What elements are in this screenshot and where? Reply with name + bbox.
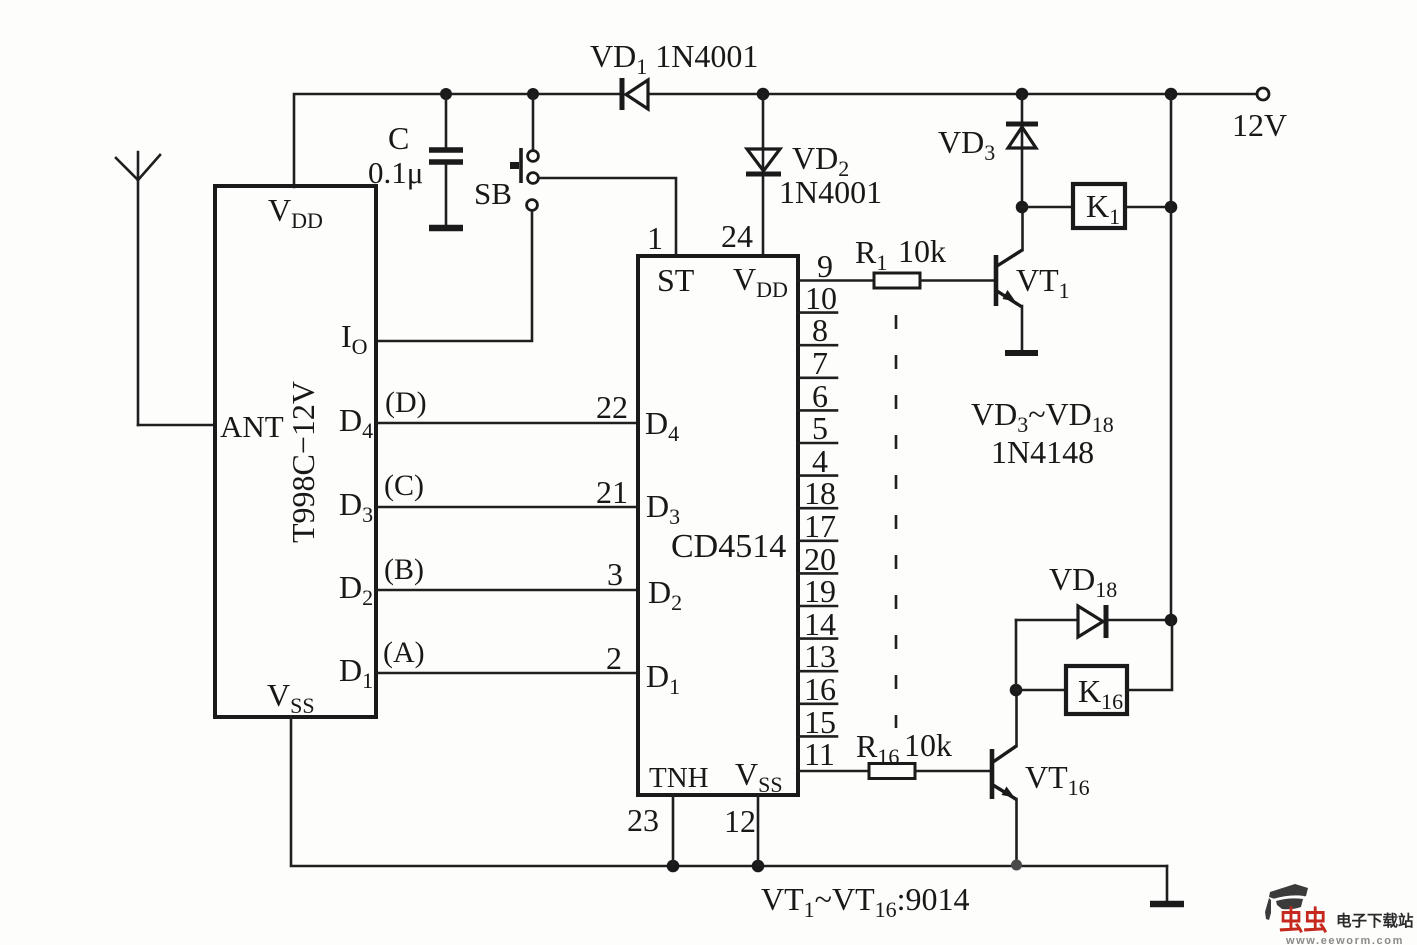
pin 19 stub (798, 605, 837, 608)
svg-text:17: 17 (804, 508, 836, 544)
wire pin 23 TNH (672, 795, 675, 866)
svg-text:9: 9 (817, 248, 833, 284)
svg-text:1N4001: 1N4001 (779, 174, 882, 210)
node junction VD2 on rail (757, 88, 770, 101)
svg-text:T998C−12V: T998C−12V (285, 381, 321, 543)
wire VDD rail top: from ANT VDD up and across to 12V terminal (294, 94, 620, 187)
wire K1 to right rail (1125, 206, 1171, 209)
node pin23 junction (667, 860, 680, 873)
wire SB to ST pin1 (539, 178, 676, 254)
wire right rail (1170, 94, 1173, 620)
pin 13 stub (798, 670, 837, 673)
wire D4 bus (377, 422, 638, 425)
node junction SB on rail (527, 88, 539, 100)
capacitor C 0.1u (429, 94, 463, 228)
IC U1 T998C-12V receiver box (215, 186, 376, 717)
svg-text:24: 24 (721, 218, 753, 254)
svg-text:3: 3 (607, 556, 623, 592)
logo graduation cap (1269, 884, 1308, 901)
diode VD18 (1016, 605, 1171, 638)
svg-text:ANT: ANT (220, 409, 284, 444)
svg-text:www.eeworm.com: www.eeworm.com (1285, 935, 1404, 945)
wire pin 9 to R1 (798, 279, 874, 282)
wire top rail right of VD1 (648, 93, 1257, 96)
wire VSS down from T998C (291, 717, 1167, 866)
wire D1 bus (377, 672, 638, 675)
svg-text:16: 16 (804, 671, 836, 707)
wire SB lower contact to IO (377, 211, 532, 341)
ground main (1150, 866, 1184, 904)
diode VD2 1N4001 (746, 94, 781, 254)
svg-text:10k: 10k (898, 233, 946, 269)
node VD18 right rail junction (1165, 614, 1178, 627)
diode VD3 (1006, 94, 1038, 207)
switch SB pushbutton (510, 94, 538, 210)
node junction VD3 on rail (1016, 88, 1029, 101)
svg-text:19: 19 (804, 573, 836, 609)
svg-text:(A): (A) (383, 636, 425, 669)
wire R16 to VT16 base (915, 770, 990, 773)
wire pin 12 VSS (757, 795, 760, 866)
resistor R1 10k (874, 273, 920, 288)
svg-text:12V: 12V (1232, 107, 1287, 143)
node 12V terminal (1257, 88, 1269, 100)
wire junction up to VD18 (1015, 620, 1018, 690)
node junction right rail on top rail (1165, 88, 1178, 101)
relay K1 (1073, 184, 1125, 228)
pin 17 stub (798, 539, 837, 542)
pin 18 stub (798, 507, 837, 510)
node VT1 collector junction (1016, 201, 1029, 214)
pin 16 stub (798, 702, 837, 705)
ground VT1 emitter (1005, 350, 1038, 356)
svg-text:(B): (B) (384, 553, 424, 586)
wire pin 11 to R16 (798, 770, 869, 773)
transistor VT16 9014 (992, 690, 1017, 866)
wire R1 to VT1 base (920, 279, 994, 282)
logo text 虫虫 red (1279, 906, 1328, 936)
node VT16 emitter junction (1011, 860, 1022, 871)
pin 15 stub (798, 735, 837, 738)
IC U2 CD4514 box (638, 256, 798, 795)
svg-text:ST: ST (657, 262, 695, 298)
node pin12 junction (752, 860, 765, 873)
svg-text:13: 13 (804, 638, 836, 674)
node VT16 collector junction (1010, 684, 1023, 697)
wire D2 bus (377, 589, 638, 592)
svg-text:1: 1 (647, 220, 663, 256)
svg-text:(D): (D) (385, 386, 427, 419)
svg-text:21: 21 (596, 474, 628, 510)
svg-text:TNH: TNH (649, 762, 709, 794)
pin 20 stub (798, 572, 837, 575)
svg-text:12: 12 (724, 803, 756, 839)
wire K16 to right rail (1127, 620, 1172, 690)
svg-text:VD1 1N4001: VD1 1N4001 (590, 38, 758, 79)
pin 8 stub (798, 344, 837, 347)
wire junction to K1 (1022, 206, 1073, 209)
svg-text:23: 23 (627, 802, 659, 838)
svg-text:4: 4 (812, 443, 828, 479)
transistor VT1 9014 (996, 207, 1023, 350)
svg-text:5: 5 (812, 410, 828, 446)
pin 7 stub (798, 376, 837, 379)
wire antenna to ANT pin (138, 424, 215, 427)
svg-text:VT1~VT16:9014: VT1~VT16:9014 (761, 881, 970, 922)
svg-text:电子下载站: 电子下载站 (1336, 911, 1414, 930)
pin 14 stub (798, 637, 837, 640)
wire D3 bus (377, 506, 638, 509)
svg-text:18: 18 (804, 475, 836, 511)
svg-text:2: 2 (606, 640, 622, 676)
svg-text:10k: 10k (904, 727, 952, 763)
logo watermark eeworm (1265, 884, 1414, 945)
svg-text:6: 6 (812, 378, 828, 414)
diode VD1 1N4001 (622, 78, 648, 110)
svg-text:7: 7 (812, 345, 828, 381)
svg-text:虫虫: 虫虫 (1279, 906, 1328, 936)
pin 4 stub (798, 474, 837, 477)
wire junction to K16 (1016, 689, 1066, 692)
svg-text:(C): (C) (384, 469, 424, 502)
svg-text:1N4148: 1N4148 (991, 434, 1094, 470)
pin 10 stub (798, 311, 837, 314)
wire dashed continuation between channels (895, 315, 898, 728)
svg-text:8: 8 (812, 312, 828, 348)
svg-text:CD4514: CD4514 (671, 528, 786, 565)
svg-text:14: 14 (804, 606, 836, 642)
svg-text:15: 15 (804, 704, 836, 740)
pin 6 stub (798, 409, 837, 412)
node junction C on rail (440, 88, 452, 100)
node right rail at K1 (1165, 201, 1178, 214)
svg-text:11: 11 (804, 736, 835, 772)
resistor R16 10k (869, 764, 915, 779)
svg-text:20: 20 (804, 541, 836, 577)
svg-text:10: 10 (805, 280, 837, 316)
svg-text:C: C (388, 120, 409, 156)
svg-text:22: 22 (596, 389, 628, 425)
pin 5 stub (798, 442, 837, 445)
antenna (116, 152, 160, 425)
svg-text:SB: SB (474, 176, 512, 211)
relay K16 (1066, 666, 1127, 714)
